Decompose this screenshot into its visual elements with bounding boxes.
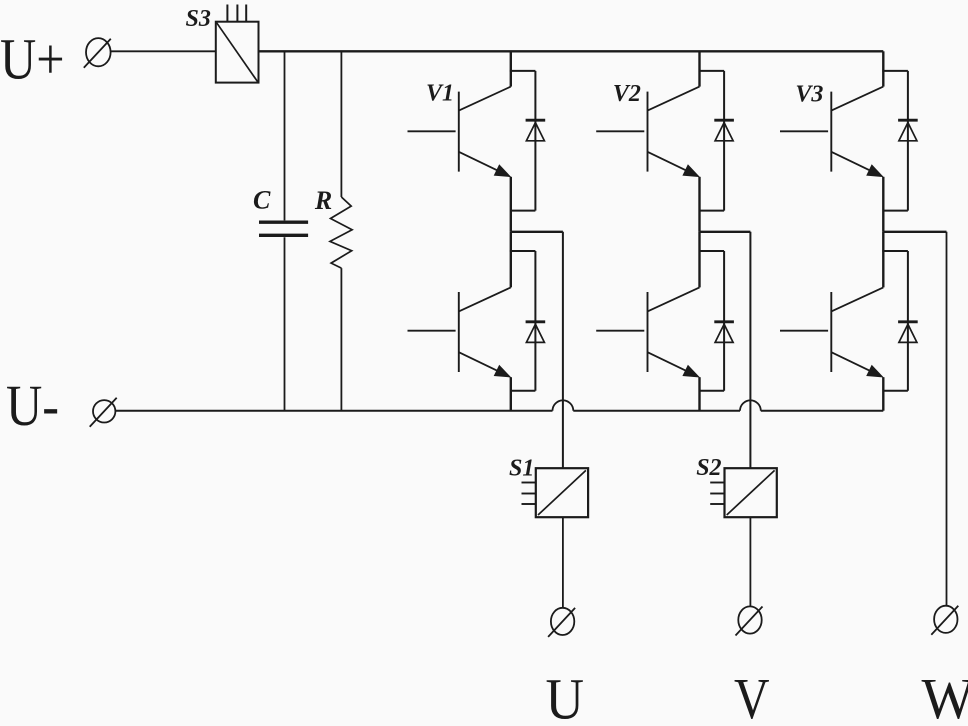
svg-text:C: C (253, 185, 271, 214)
svg-text:W: W (922, 666, 968, 726)
svg-text:U: U (546, 666, 585, 726)
svg-text:V1: V1 (426, 81, 454, 107)
svg-text:V3: V3 (795, 82, 823, 108)
svg-text:S3: S3 (186, 6, 211, 32)
svg-text:U-: U- (6, 373, 59, 438)
svg-text:S2: S2 (696, 455, 721, 481)
svg-text:R: R (314, 186, 332, 215)
svg-text:V: V (734, 666, 770, 726)
svg-text:V2: V2 (613, 81, 641, 107)
svg-text:U+: U+ (0, 27, 65, 92)
svg-text:S1: S1 (509, 455, 534, 481)
